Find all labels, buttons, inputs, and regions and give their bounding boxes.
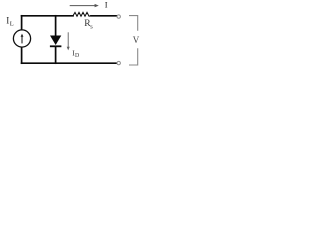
svg-text:I: I	[6, 16, 9, 26]
svg-text:I: I	[105, 0, 108, 10]
svg-text:V: V	[133, 35, 140, 45]
svg-text:D: D	[75, 53, 79, 59]
svg-text:L: L	[10, 21, 14, 28]
